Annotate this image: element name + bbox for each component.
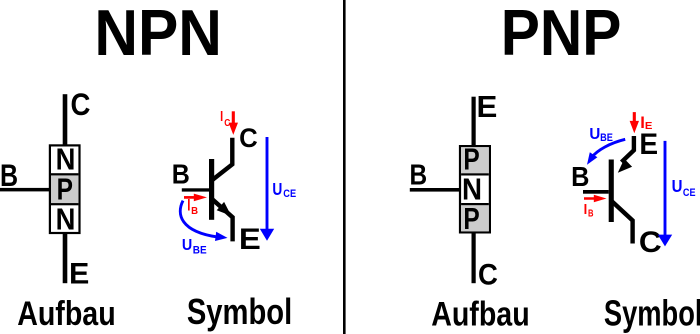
svg-text:NPN: NPN <box>94 0 222 69</box>
wire base (NPN symbol) <box>182 188 209 191</box>
wire: vertical divider between NPN and PNP halves <box>343 0 346 334</box>
wire internal border N/P (PNP Aufbau) <box>461 203 489 205</box>
svg-text:N: N <box>462 172 482 206</box>
svg-text:P: P <box>463 202 479 236</box>
svg-text:E: E <box>239 223 261 256</box>
transistor Q NPN base bar <box>209 159 214 220</box>
svg-text:B: B <box>588 208 594 219</box>
transistor PNP Aufbau box outer <box>460 146 490 232</box>
wire internal border P/N (NPN Aufbau) <box>51 203 78 205</box>
svg-text:Aufbau: Aufbau <box>431 296 529 334</box>
node UCE voltage arrow (blue, PNP) <box>658 141 672 247</box>
wire base (PNP symbol) <box>583 190 609 194</box>
svg-text:U: U <box>589 126 600 143</box>
svg-text:CE: CE <box>683 187 696 199</box>
wire collector (NPN symbol) <box>211 138 232 181</box>
svg-text:I: I <box>187 196 190 214</box>
svg-text:B: B <box>191 206 198 217</box>
svg-text:E: E <box>477 91 498 124</box>
svg-text:BE: BE <box>193 244 207 256</box>
node UBE voltage arrow (blue curved) <box>180 201 218 238</box>
wire base lead B (NPN Aufbau) <box>0 188 50 192</box>
wire collector lead C (NPN Aufbau) <box>63 94 68 144</box>
svg-text:C: C <box>70 87 90 122</box>
wire collector (PNP symbol) <box>611 201 633 244</box>
svg-text:E: E <box>639 128 658 161</box>
svg-text:E: E <box>69 258 89 291</box>
svg-text:B: B <box>0 157 18 193</box>
wire emitter lead E (PNP Aufbau) <box>472 97 476 145</box>
wire internal border P/N (PNP Aufbau) <box>461 173 489 175</box>
wire collector lead C (PNP Aufbau) <box>472 234 476 284</box>
svg-text:P: P <box>57 172 73 206</box>
node IB current arrow (red, into base) <box>184 194 207 202</box>
svg-text:C: C <box>239 123 258 153</box>
svg-text:C: C <box>224 118 230 129</box>
node IE current arrow (red, into emitter) <box>630 112 639 133</box>
svg-text:BE: BE <box>600 132 613 144</box>
transistor NPN Aufbau middle P layer (gray) <box>51 174 78 204</box>
svg-text:C: C <box>478 259 498 291</box>
transistor PNP emitter arrowhead (points toward base) <box>618 159 632 173</box>
node UBE voltage arrow (blue curved, PNP) <box>592 139 626 157</box>
svg-text:I: I <box>220 108 223 125</box>
svg-text:B: B <box>410 159 428 191</box>
node IC current arrow (red, into collector) <box>229 111 238 135</box>
svg-text:U: U <box>672 176 683 196</box>
node IB current arrow (red, into base, PNP) <box>584 195 607 203</box>
svg-text:E: E <box>645 120 653 132</box>
svg-text:U: U <box>182 237 192 254</box>
node UCE voltage arrow (blue) <box>260 137 274 241</box>
svg-text:Symbol: Symbol <box>604 293 700 334</box>
svg-text:PNP: PNP <box>501 0 622 69</box>
wire emitter (PNP symbol) <box>622 136 634 162</box>
transistor PNP Aufbau top P layer (gray) <box>461 147 489 173</box>
wire internal border N/P (NPN Aufbau) <box>51 173 78 175</box>
svg-text:I: I <box>584 201 588 218</box>
svg-text:B: B <box>571 161 589 192</box>
transistor Q PNP base bar <box>609 160 614 223</box>
transistor NPN emitter arrowhead <box>217 202 232 216</box>
svg-text:C: C <box>639 226 662 259</box>
wire base lead B (PNP Aufbau) <box>410 188 460 192</box>
wire emitter (NPN symbol) <box>211 198 233 242</box>
svg-text:Aufbau: Aufbau <box>17 295 115 333</box>
svg-text:B: B <box>172 158 190 189</box>
wire emitter lead E (NPN Aufbau) <box>63 234 68 283</box>
svg-text:Symbol: Symbol <box>187 291 292 332</box>
svg-text:U: U <box>272 179 282 199</box>
svg-text:CE: CE <box>283 188 296 200</box>
svg-text:N: N <box>56 202 76 236</box>
transistor PNP Aufbau bottom P layer (gray) <box>461 205 489 231</box>
transistor NPN Aufbau box outer <box>50 145 80 233</box>
